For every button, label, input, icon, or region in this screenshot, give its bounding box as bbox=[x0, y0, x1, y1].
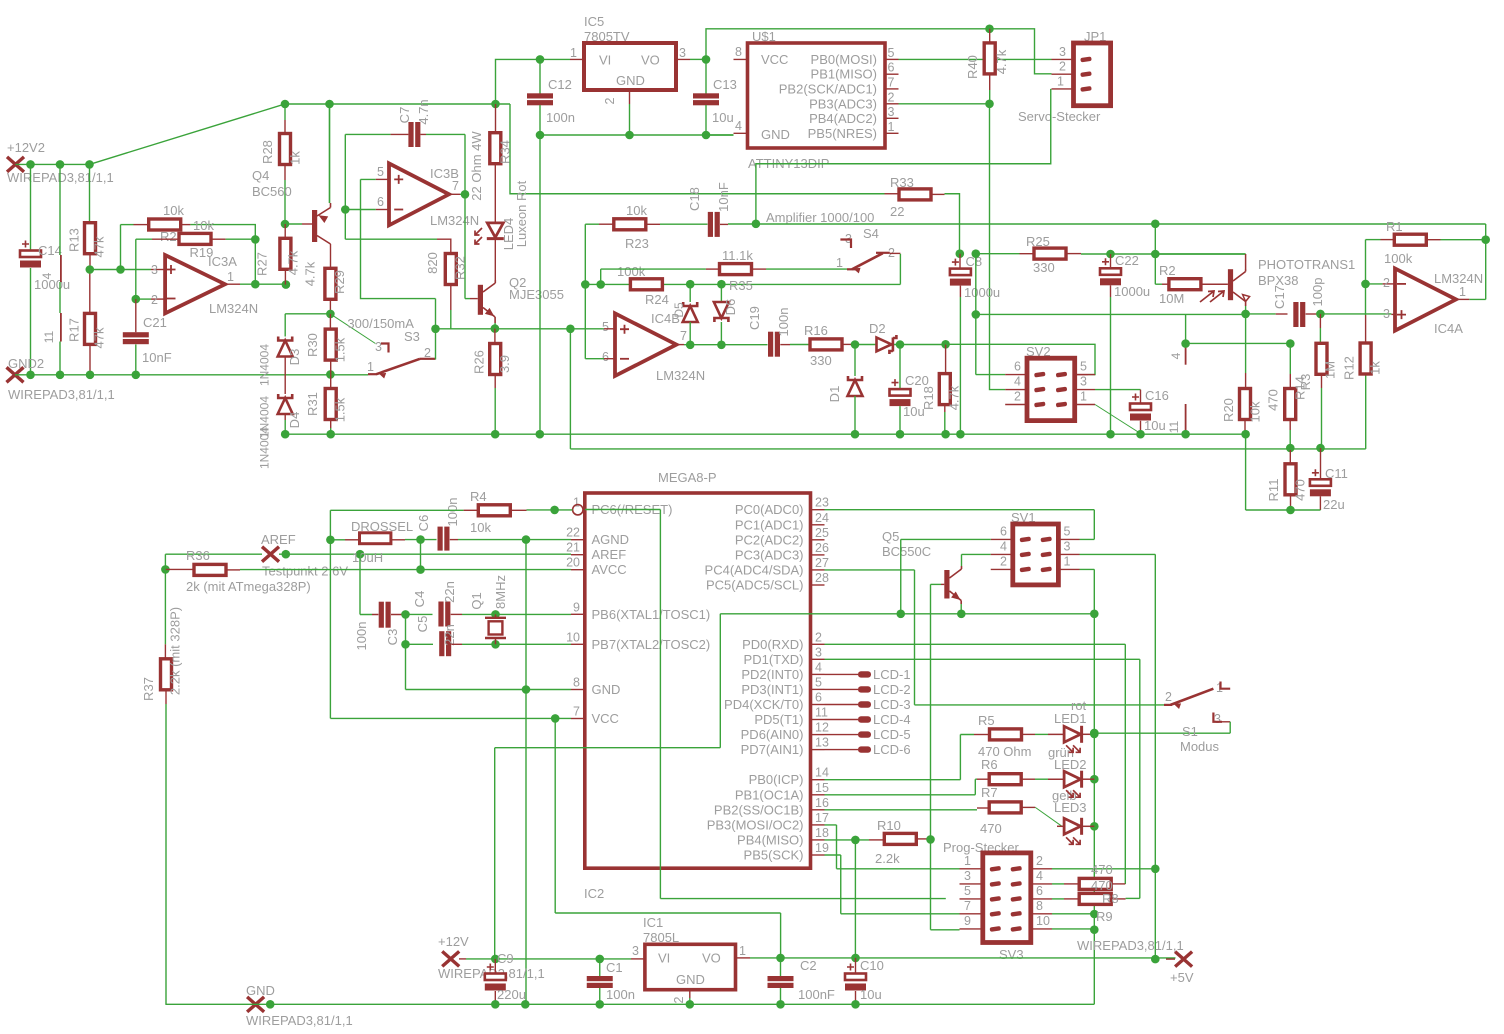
svg-text:6: 6 bbox=[602, 350, 609, 364]
wire AREF to C3 bbox=[360, 554, 372, 614]
svg-text:2k (mit ATmega328P): 2k (mit ATmega328P) bbox=[186, 579, 311, 594]
wire SV1 pin1 to gnd chain bbox=[1080, 569, 1095, 1004]
wire C7 feedback loop bbox=[345, 134, 390, 239]
svg-text:R23: R23 bbox=[625, 236, 649, 251]
wire R32 top bbox=[345, 238, 437, 240]
wire R10/MISO down to +5V line bbox=[854, 840, 856, 958]
svg-text:22n: 22n bbox=[442, 581, 457, 603]
svg-text:10k: 10k bbox=[163, 203, 184, 218]
svg-text:16: 16 bbox=[815, 796, 829, 810]
svg-text:10k: 10k bbox=[1248, 401, 1263, 422]
svg-text:10u: 10u bbox=[860, 987, 882, 1002]
svg-text:R11: R11 bbox=[1266, 479, 1281, 502]
svg-text:R34: R34 bbox=[498, 140, 513, 164]
svg-text:11: 11 bbox=[1167, 420, 1181, 433]
wire +12V rail top-left bbox=[16, 163, 90, 165]
svg-text:IC3A: IC3A bbox=[208, 254, 237, 269]
svg-text:+12V2: +12V2 bbox=[7, 140, 45, 155]
svg-text:LM324N: LM324N bbox=[1434, 271, 1483, 286]
svg-text:S1: S1 bbox=[1182, 724, 1198, 739]
svg-text:1.5k: 1.5k bbox=[333, 337, 348, 362]
svg-text:LCD-3: LCD-3 bbox=[873, 697, 911, 712]
capacitor C10 10u bbox=[855, 958, 857, 974]
svg-text:MEGA8-P: MEGA8-P bbox=[658, 470, 717, 485]
op-amp IC4A LM324N bbox=[1395, 269, 1456, 331]
wire emitter sense row bbox=[436, 328, 605, 330]
svg-text:2.2k (mit 328P): 2.2k (mit 328P) bbox=[168, 607, 183, 695]
svg-text:2: 2 bbox=[815, 630, 822, 644]
svg-text:C14: C14 bbox=[38, 243, 62, 258]
wire SV2 pin3 to C16 bbox=[1095, 389, 1141, 391]
svg-text:C2: C2 bbox=[800, 958, 817, 973]
wire R35 to S4 pin1 bbox=[766, 268, 847, 270]
svg-text:3: 3 bbox=[679, 46, 686, 60]
svg-text:BC560: BC560 bbox=[252, 184, 292, 199]
svg-text:AREF: AREF bbox=[261, 532, 296, 547]
wire IC4B pin6 bbox=[585, 284, 604, 358]
svg-text:22: 22 bbox=[566, 526, 580, 540]
svg-text:+12V: +12V bbox=[438, 934, 469, 949]
svg-text:AVCC: AVCC bbox=[592, 562, 627, 577]
svg-text:47k: 47k bbox=[92, 236, 107, 257]
wire prog pin2 to +5V col bbox=[1052, 868, 1155, 870]
svg-text:SV3: SV3 bbox=[999, 947, 1024, 962]
svg-text:R13: R13 bbox=[67, 228, 82, 252]
wire R23 corner down bbox=[584, 224, 586, 284]
svg-text:PHOTOTRANS1: PHOTOTRANS1 bbox=[1258, 257, 1355, 272]
svg-text:MJE3055: MJE3055 bbox=[509, 287, 564, 302]
svg-text:C6: C6 bbox=[416, 515, 431, 532]
wire prog pin8 to gnd chain bbox=[1052, 913, 1094, 915]
svg-text:6: 6 bbox=[888, 61, 895, 75]
svg-text:5: 5 bbox=[1080, 360, 1087, 374]
svg-text:C4: C4 bbox=[412, 591, 427, 608]
resistor R33 22 bbox=[885, 193, 900, 195]
wire IC4A output bbox=[1456, 298, 1469, 300]
svg-text:Luxeon Rot: Luxeon Rot bbox=[514, 180, 529, 247]
svg-text:GND: GND bbox=[246, 983, 275, 998]
svg-text:22: 22 bbox=[890, 204, 904, 219]
svg-text:LED2: LED2 bbox=[1054, 757, 1087, 772]
svg-text:1: 1 bbox=[570, 46, 577, 60]
svg-text:LM324N: LM324N bbox=[656, 368, 705, 383]
svg-text:Q5: Q5 bbox=[882, 529, 899, 544]
wire TXD bbox=[825, 659, 1140, 898]
svg-text:PB0(ICP): PB0(ICP) bbox=[749, 772, 804, 787]
svg-text:PB4(ADC2): PB4(ADC2) bbox=[809, 111, 877, 126]
light arrows into phototransistor bbox=[1200, 291, 1214, 302]
svg-text:10: 10 bbox=[1036, 914, 1050, 928]
svg-text:R28: R28 bbox=[260, 140, 275, 164]
wire IC3B output vertical bbox=[464, 134, 466, 298]
svg-text:S4: S4 bbox=[863, 226, 879, 241]
resistor R31 1.5k bbox=[330, 374, 332, 389]
resistor R18 4.7k bbox=[945, 344, 947, 373]
svg-text:3: 3 bbox=[1383, 307, 1390, 321]
svg-text:PC0(ADC0): PC0(ADC0) bbox=[735, 502, 804, 517]
wire +12V up to 7805 bbox=[496, 59, 541, 104]
svg-text:11: 11 bbox=[815, 706, 828, 720]
svg-text:R4: R4 bbox=[470, 489, 487, 504]
svg-text:C12: C12 bbox=[548, 77, 572, 92]
resistor R19 10k bbox=[136, 238, 152, 240]
svg-text:VCC: VCC bbox=[761, 52, 788, 67]
resistor R25 330 bbox=[1020, 253, 1035, 255]
wire Q5 collector to SV1 pin4 bbox=[962, 554, 991, 566]
wire R29 bottom node bbox=[285, 313, 330, 315]
wire +5V line bbox=[736, 957, 751, 959]
svg-text:4: 4 bbox=[1169, 352, 1183, 359]
svg-text:2: 2 bbox=[151, 293, 158, 307]
svg-text:VI: VI bbox=[658, 951, 670, 966]
resistor R28 1k bbox=[284, 104, 286, 120]
wire R19 node to output bbox=[254, 239, 256, 284]
wire to Q2 base bbox=[465, 298, 470, 300]
svg-text:10uH: 10uH bbox=[352, 550, 383, 565]
svg-text:C16: C16 bbox=[1145, 388, 1169, 403]
thin wire SV2 pin1 to GND bbox=[1095, 405, 1141, 434]
svg-text:VI: VI bbox=[599, 53, 611, 68]
svg-text:PB3(MOSI/OC2): PB3(MOSI/OC2) bbox=[707, 817, 804, 832]
diode D4 1N4004 bbox=[278, 394, 292, 398]
wire MOSI to prog pin1 bbox=[825, 825, 960, 869]
wire GND2 rail bbox=[15, 374, 368, 376]
svg-text:3: 3 bbox=[1214, 712, 1221, 726]
svg-text:3: 3 bbox=[1064, 540, 1071, 554]
svg-text:C21: C21 bbox=[143, 315, 167, 330]
junction node 329.5,104 bbox=[325, 100, 334, 109]
wire AREF line bbox=[165, 553, 571, 555]
svg-text:6: 6 bbox=[1014, 360, 1021, 374]
svg-text:AGND: AGND bbox=[592, 532, 630, 547]
svg-text:100k: 100k bbox=[1384, 251, 1413, 266]
svg-text:R36: R36 bbox=[186, 548, 210, 563]
svg-text:C18: C18 bbox=[687, 187, 702, 211]
svg-text:4: 4 bbox=[815, 660, 822, 674]
svg-text:R40: R40 bbox=[965, 55, 980, 79]
svg-text:4.7k: 4.7k bbox=[947, 385, 962, 410]
svg-text:R25: R25 bbox=[1026, 234, 1050, 249]
svg-text:PC3(ADC3): PC3(ADC3) bbox=[735, 547, 804, 562]
svg-text:22u: 22u bbox=[1323, 497, 1345, 512]
wire IC3A output bbox=[225, 283, 240, 285]
svg-text:2: 2 bbox=[1000, 555, 1007, 569]
svg-text:6: 6 bbox=[815, 691, 822, 705]
svg-text:1000u: 1000u bbox=[1114, 284, 1150, 299]
svg-text:PB5(NRES): PB5(NRES) bbox=[808, 126, 877, 141]
IC1 GND lead bbox=[689, 990, 691, 998]
svg-text:10nF: 10nF bbox=[142, 350, 172, 365]
input node row y284 bbox=[585, 283, 900, 285]
svg-text:3: 3 bbox=[1080, 375, 1087, 389]
svg-text:R8: R8 bbox=[1102, 891, 1119, 906]
svg-text:330: 330 bbox=[810, 353, 832, 368]
op-amp IC3B LM324N bbox=[389, 163, 449, 225]
wire emitter row to C17 bbox=[976, 313, 1246, 315]
svg-text:C20: C20 bbox=[905, 373, 929, 388]
svg-text:220u: 220u bbox=[497, 987, 526, 1002]
svg-text:1: 1 bbox=[836, 256, 843, 270]
svg-text:R1: R1 bbox=[1386, 219, 1403, 234]
svg-text:100n: 100n bbox=[776, 308, 791, 337]
svg-text:PD1(TXD): PD1(TXD) bbox=[744, 652, 804, 667]
wire x526 AGND-GND drop bbox=[525, 540, 527, 1005]
svg-text:10nF: 10nF bbox=[716, 182, 731, 212]
svg-text:100p: 100p bbox=[1310, 278, 1325, 307]
svg-text:6: 6 bbox=[377, 195, 384, 209]
MEGA8 right pin leads/numbers bbox=[811, 509, 825, 511]
wire sense net down to 448 bbox=[569, 329, 571, 449]
resistor R40 4.7k bbox=[984, 43, 995, 74]
resistor R14 470 bbox=[1289, 344, 1291, 374]
svg-text:C5: C5 bbox=[415, 616, 430, 633]
resistor R32 820 bbox=[445, 254, 456, 285]
svg-text:PB5(SCK): PB5(SCK) bbox=[744, 848, 804, 863]
svg-text:D2: D2 bbox=[869, 321, 886, 336]
svg-text:25: 25 bbox=[815, 526, 829, 540]
svg-text:D5: D5 bbox=[672, 302, 686, 318]
resistor R9 470 bbox=[1052, 898, 1064, 900]
op-amp IC4B LM324N bbox=[615, 313, 676, 376]
svg-text:21: 21 bbox=[566, 541, 580, 555]
svg-text:C19: C19 bbox=[747, 306, 762, 330]
diode D3 1N4004 bbox=[278, 337, 292, 341]
zener diode D5 bbox=[689, 284, 691, 302]
svg-text:4: 4 bbox=[40, 272, 54, 279]
svg-text:820: 820 bbox=[425, 252, 440, 274]
svg-text:12: 12 bbox=[815, 721, 829, 735]
svg-text:C22: C22 bbox=[1115, 253, 1139, 268]
svg-text:9: 9 bbox=[964, 914, 971, 928]
resistor R17 47k bbox=[89, 270, 91, 314]
svg-text:5: 5 bbox=[1064, 525, 1071, 539]
svg-text:470: 470 bbox=[1266, 389, 1281, 411]
resistor R27 4.7k bbox=[284, 224, 286, 238]
svg-text:24: 24 bbox=[815, 511, 829, 525]
svg-text:100k: 100k bbox=[617, 264, 646, 279]
svg-text:R29: R29 bbox=[332, 270, 347, 294]
capacitor C16 10u bbox=[1140, 390, 1142, 404]
svg-text:LM324N: LM324N bbox=[209, 301, 258, 316]
svg-text:28: 28 bbox=[815, 571, 829, 585]
svg-text:7: 7 bbox=[452, 179, 459, 193]
wire IC3A pin2 line bbox=[135, 239, 137, 299]
svg-text:4.7k: 4.7k bbox=[285, 250, 300, 275]
wire R35 branch bbox=[601, 269, 706, 284]
svg-text:47k: 47k bbox=[92, 327, 107, 348]
wire gnd row y614 bbox=[720, 613, 1094, 615]
junction node 495.5,104 bbox=[491, 100, 500, 109]
svg-text:GND: GND bbox=[616, 73, 645, 88]
svg-text:PB3(ADC3): PB3(ADC3) bbox=[809, 96, 877, 111]
resistor R26 3.9 bbox=[494, 329, 496, 344]
wire IC3B pin6 bbox=[376, 209, 389, 211]
svg-text:Testpunkt 2.6V: Testpunkt 2.6V bbox=[262, 564, 348, 579]
wire bottom GND rail bbox=[165, 1003, 1094, 1005]
wire AVCC branch bbox=[420, 540, 422, 570]
wire crystal gnd column bbox=[405, 614, 407, 689]
svg-text:R20: R20 bbox=[1221, 398, 1236, 422]
svg-text:26: 26 bbox=[815, 541, 829, 555]
svg-text:2: 2 bbox=[672, 996, 686, 1003]
svg-text:R5: R5 bbox=[978, 713, 995, 728]
LED LED1 bbox=[1064, 726, 1081, 742]
svg-text:R35: R35 bbox=[729, 278, 753, 293]
svg-text:3: 3 bbox=[888, 105, 895, 119]
capacitor C7 4.7n bbox=[408, 122, 413, 147]
svg-text:4: 4 bbox=[1000, 540, 1007, 554]
wire node row y448 bbox=[570, 448, 1365, 450]
wire R2 node bbox=[1151, 250, 1160, 259]
svg-text:20: 20 bbox=[566, 556, 580, 570]
svg-text:C1: C1 bbox=[606, 960, 623, 975]
svg-text:R24: R24 bbox=[645, 292, 669, 307]
svg-text:PB0(MOSI): PB0(MOSI) bbox=[811, 52, 877, 67]
svg-text:1M: 1M bbox=[1323, 361, 1338, 379]
capacitor C19 100n bbox=[768, 332, 773, 357]
svg-text:R7: R7 bbox=[981, 785, 998, 800]
svg-text:100n: 100n bbox=[546, 110, 575, 125]
svg-text:470: 470 bbox=[1091, 862, 1113, 877]
svg-text:4: 4 bbox=[735, 119, 742, 133]
junction node 285,104 bbox=[281, 100, 290, 109]
svg-text:100n: 100n bbox=[606, 987, 635, 1002]
svg-text:R27: R27 bbox=[255, 252, 270, 276]
resistor R22 10k bbox=[120, 225, 122, 270]
svg-text:R16: R16 bbox=[804, 323, 828, 338]
svg-text:R6: R6 bbox=[981, 757, 998, 772]
capacitor C3 100n bbox=[379, 602, 384, 628]
svg-text:1N4004: 1N4004 bbox=[258, 427, 272, 469]
wire long top net y224 bbox=[728, 223, 1486, 225]
capacitor C4 22n bbox=[406, 613, 433, 615]
svg-text:Modus: Modus bbox=[1180, 739, 1220, 754]
svg-text:R14: R14 bbox=[1293, 376, 1308, 400]
svg-text:22n: 22n bbox=[442, 624, 457, 646]
svg-text:C13: C13 bbox=[713, 77, 737, 92]
wire x540 GND drop bbox=[539, 135, 541, 434]
wire SV1 pin5 to PC0 bbox=[825, 510, 1095, 540]
capacitor C14 bbox=[30, 164, 32, 250]
svg-text:C11: C11 bbox=[1325, 466, 1348, 481]
svg-text:Q4: Q4 bbox=[252, 168, 269, 183]
resistor R35 11.1k bbox=[706, 268, 720, 270]
wire RXD bbox=[825, 644, 1126, 884]
zener diode D1 bbox=[854, 345, 856, 377]
capacitor C17 100p bbox=[1293, 302, 1298, 327]
svg-text:1N4004: 1N4004 bbox=[258, 344, 272, 386]
svg-text:R37: R37 bbox=[141, 677, 156, 701]
wire AREF corner down bbox=[164, 554, 166, 569]
svg-text:LCD-2: LCD-2 bbox=[873, 682, 911, 697]
capacitor C12 100n bbox=[539, 59, 541, 93]
wire IC4B output row bbox=[676, 344, 684, 346]
wire C8 node to SV2 pin6 bbox=[972, 249, 981, 258]
svg-text:9: 9 bbox=[573, 600, 580, 614]
svg-text:2: 2 bbox=[888, 91, 895, 105]
svg-text:2: 2 bbox=[1383, 276, 1390, 290]
resistor R30 1.5k bbox=[329, 314, 331, 329]
svg-text:IC4A: IC4A bbox=[1434, 321, 1463, 336]
svg-text:R12: R12 bbox=[1342, 356, 1357, 380]
wire C17 to IC4A pin3 bbox=[1320, 313, 1391, 315]
ATTINY pin leads bbox=[734, 59, 748, 133]
svg-text:1: 1 bbox=[739, 944, 746, 958]
svg-text:5: 5 bbox=[888, 46, 895, 60]
svg-text:3: 3 bbox=[151, 263, 158, 277]
svg-text:PB1(OC1A): PB1(OC1A) bbox=[735, 787, 804, 802]
thin wire R7 to LED3 bbox=[1035, 807, 1062, 826]
svg-text:1: 1 bbox=[227, 270, 234, 284]
svg-text:3: 3 bbox=[375, 340, 382, 354]
svg-text:WIREPAD3,81/1,1: WIREPAD3,81/1,1 bbox=[8, 387, 115, 402]
wire R11/C11 bottom bbox=[1246, 434, 1321, 510]
svg-text:LED3: LED3 bbox=[1054, 800, 1087, 815]
wire GND rail top bbox=[540, 134, 734, 136]
svg-text:R9: R9 bbox=[1096, 909, 1113, 924]
wire PC4 SDA to S1 bbox=[825, 570, 1171, 705]
svg-text:10k: 10k bbox=[193, 218, 214, 233]
svg-text:PB6(XTAL1/TOSC1): PB6(XTAL1/TOSC1) bbox=[592, 607, 711, 622]
capacitor C11 22u bbox=[1320, 448, 1322, 479]
wire y254 to R25 bbox=[976, 253, 1020, 255]
wire long 510 to R33 bbox=[510, 104, 885, 194]
resistor R24 100k bbox=[630, 279, 662, 290]
svg-text:4.7k: 4.7k bbox=[303, 261, 318, 286]
svg-text:27: 27 bbox=[815, 556, 829, 570]
wire LED1 row to S1 pin3 bbox=[1094, 732, 1230, 734]
svg-text:S3: S3 bbox=[404, 329, 420, 344]
wire SV1 pin3 to +5V bbox=[1080, 554, 1156, 959]
wire to SV2 pin5 bbox=[946, 344, 1095, 374]
svg-text:LCD-1: LCD-1 bbox=[873, 667, 911, 682]
capacitor C5 22n bbox=[406, 643, 434, 645]
LCD stub pins bbox=[825, 673, 859, 675]
svg-text:1: 1 bbox=[573, 496, 580, 510]
capacitor C18 10nF bbox=[708, 212, 713, 237]
svg-text:1: 1 bbox=[964, 854, 971, 868]
svg-text:PD2(INT0): PD2(INT0) bbox=[741, 667, 803, 682]
wire PB3 line bbox=[899, 103, 990, 105]
svg-text:C3: C3 bbox=[385, 629, 400, 646]
wire Q5 base column bbox=[931, 584, 960, 929]
svg-text:PD7(AIN1): PD7(AIN1) bbox=[741, 742, 804, 757]
wire Q5 emitter to gnd row bbox=[960, 604, 962, 614]
svg-text:R17: R17 bbox=[67, 318, 82, 342]
svg-text:18: 18 bbox=[815, 826, 829, 840]
wire GND pin8 row bbox=[406, 689, 572, 691]
svg-text:8: 8 bbox=[735, 45, 742, 59]
capacitor C6 100n bbox=[438, 527, 443, 551]
svg-text:PD5(T1): PD5(T1) bbox=[754, 712, 803, 727]
svg-text:5: 5 bbox=[602, 320, 609, 334]
svg-text:PB4(MISO): PB4(MISO) bbox=[737, 832, 803, 847]
svg-text:7: 7 bbox=[573, 705, 580, 719]
svg-text:2: 2 bbox=[1036, 854, 1043, 868]
wire IC3B pin5 bbox=[376, 178, 389, 180]
wire S3 pin2 up to sense net bbox=[435, 299, 437, 360]
capacitor C8 1000u bbox=[956, 249, 965, 258]
svg-text:10M: 10M bbox=[1159, 291, 1184, 306]
svg-text:PB1(MISO): PB1(MISO) bbox=[811, 67, 877, 82]
svg-text:Amplifier 1000/100: Amplifier 1000/100 bbox=[766, 210, 874, 225]
svg-text:WIREPAD3,81/1,1: WIREPAD3,81/1,1 bbox=[1077, 938, 1184, 953]
svg-text:VO: VO bbox=[641, 53, 660, 68]
svg-text:7: 7 bbox=[964, 899, 971, 913]
svg-text:13: 13 bbox=[815, 736, 829, 750]
svg-text:D1: D1 bbox=[827, 386, 842, 403]
MEGA8 reset pin circle bbox=[573, 505, 583, 515]
